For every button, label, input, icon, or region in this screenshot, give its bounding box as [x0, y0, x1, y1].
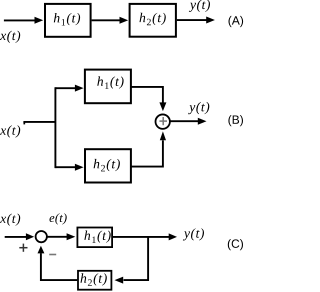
wire h1 to h2 (A) — [92, 17, 129, 24]
plus sign inside summer (B) — [159, 117, 167, 125]
node label y(t) (A) — [189, 0, 210, 12]
wire h2 output up into summer (C) — [38, 246, 78, 280]
wire h1 output to y(t) arrow (C) — [113, 233, 177, 240]
wire lower branch arrow into h2 (B) — [55, 164, 83, 171]
wire output arrow (A) — [177, 17, 215, 24]
wire feedback branch down and into h2 (C) — [115, 237, 149, 284]
node label y(t) (B) — [188, 102, 209, 114]
wire input arrow into summer (C) — [5, 233, 35, 240]
summing junction circle (C) — [36, 231, 47, 242]
block h1(t) box (C) — [77, 228, 112, 248]
figure label (B) — [228, 115, 243, 126]
wire branch trunk vertical (B) — [54, 87, 56, 168]
wire input with start tick (B) — [23, 122, 56, 125]
wire output arrow (B) — [170, 118, 206, 125]
block h1(t) box (A) — [45, 4, 91, 37]
summing junction circle (B) — [156, 114, 170, 128]
block h2(t) box (B) — [85, 149, 131, 182]
wire h2 output up into summer (B) — [131, 131, 166, 166]
block h1(t) box (B) — [85, 70, 131, 104]
block h2(t) box (A) — [130, 4, 176, 37]
wire summer to h1 arrow (C) — [47, 233, 75, 240]
node label x(t) (C) — [0, 214, 20, 226]
wire input arrow (A) — [4, 17, 43, 24]
block h2(t) box (C) — [78, 271, 111, 290]
minus sign label (C) — [49, 254, 56, 256]
wire h1 output down into summer (B) — [131, 87, 167, 111]
node label y(t) (C) — [183, 228, 204, 240]
figure label (A) — [229, 16, 244, 27]
figure label (C) — [228, 239, 243, 250]
plus sign label (C) — [19, 244, 27, 252]
wire upper branch arrow into h1 (B) — [55, 85, 83, 92]
node label e(t) (C) — [50, 213, 67, 224]
node label x(t) (B) — [0, 125, 20, 137]
node label x(t) (A) — [0, 31, 20, 43]
